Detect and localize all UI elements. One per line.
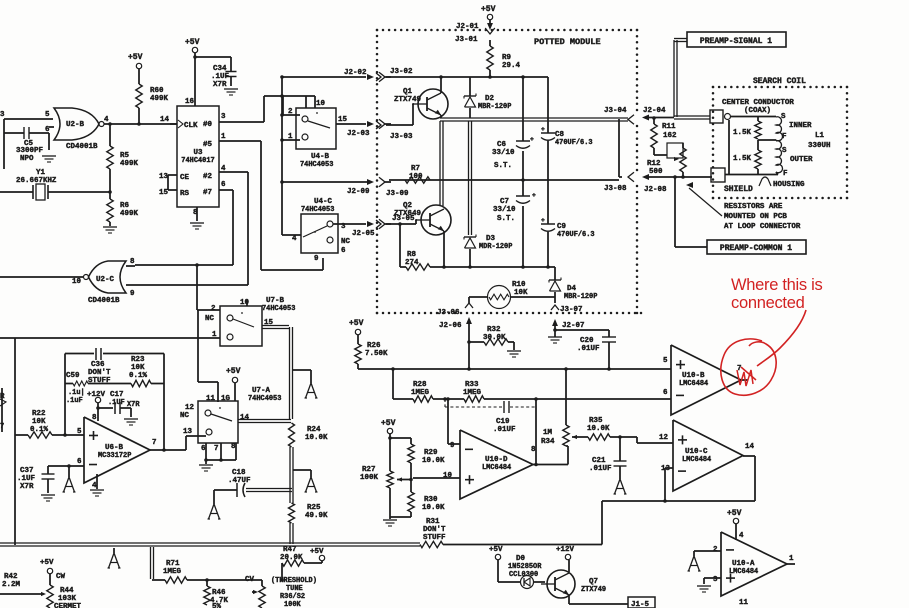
svg-text:6: 6 bbox=[341, 247, 346, 255]
svg-text:R12: R12 bbox=[647, 160, 661, 168]
svg-text:14: 14 bbox=[240, 414, 249, 422]
svg-text:C19: C19 bbox=[496, 418, 510, 426]
svg-text:100K: 100K bbox=[360, 474, 378, 482]
wire R31 to U10-C loop bbox=[443, 544, 602, 546]
wire U10-D pin 9 bbox=[447, 399, 449, 444]
svg-text:RESISTORS ARE: RESISTORS ARE bbox=[724, 203, 783, 211]
svg-text:J2-05: J2-05 bbox=[352, 230, 375, 238]
resistor 1.5K lower bbox=[757, 140, 759, 150]
connector J3-08 chevron left bbox=[628, 172, 634, 182]
svg-text:.01UF: .01UF bbox=[589, 465, 612, 473]
svg-text:POTTED MODULE: POTTED MODULE bbox=[534, 37, 601, 47]
svg-text:CERMET: CERMET bbox=[54, 603, 81, 608]
inductor L1 330UH inner bbox=[776, 117, 783, 141]
svg-text:2.2M: 2.2M bbox=[2, 581, 20, 589]
svg-text:U7-B: U7-B bbox=[266, 297, 284, 305]
connector J3-03 chevron bbox=[379, 119, 385, 129]
potentiometer R12 500 bbox=[667, 143, 683, 158]
svg-text:J2-02: J2-02 bbox=[344, 69, 367, 77]
wire U10-D output riser bbox=[535, 399, 537, 463]
svg-text:AT LOOP CONNECTOR: AT LOOP CONNECTOR bbox=[724, 223, 801, 231]
wire U6-B output to U7-A pin 13 bbox=[150, 449, 186, 451]
svg-text:33/10: 33/10 bbox=[493, 206, 516, 214]
svg-text:.1uF: .1uF bbox=[66, 397, 83, 405]
svg-text:10: 10 bbox=[316, 100, 325, 108]
wire Q7 emitter to J1-5 bbox=[568, 595, 570, 604]
IC U7-B 74HC4053 bbox=[220, 306, 262, 346]
svg-text:R26: R26 bbox=[367, 342, 381, 350]
svg-text:R28: R28 bbox=[413, 381, 427, 389]
housing symbol bbox=[759, 177, 771, 186]
svg-text:CE: CE bbox=[180, 174, 189, 182]
svg-text:3: 3 bbox=[221, 113, 226, 121]
svg-text:8: 8 bbox=[130, 258, 135, 266]
svg-text:499K: 499K bbox=[150, 95, 168, 103]
svg-text:100: 100 bbox=[409, 173, 423, 181]
svg-text:D4: D4 bbox=[567, 285, 576, 293]
coax thick wire horizontal bbox=[440, 117, 628, 119]
svg-text:J3-09: J3-09 bbox=[386, 190, 409, 198]
svg-text:2: 2 bbox=[713, 546, 718, 554]
connector J2-05 arrow bbox=[367, 221, 374, 227]
svg-text:+5V: +5V bbox=[226, 367, 241, 376]
svg-text:4: 4 bbox=[739, 532, 744, 540]
svg-text:1M: 1M bbox=[543, 429, 552, 437]
red scratch marks bbox=[737, 370, 753, 386]
svg-text:U2-C: U2-C bbox=[96, 276, 114, 284]
svg-text:OUTER: OUTER bbox=[790, 156, 813, 164]
svg-text:11: 11 bbox=[739, 599, 748, 607]
thick wire C18 to R24 bus bbox=[246, 488, 292, 490]
annotation arrow to pcb resistors bbox=[689, 188, 722, 216]
svg-text:R31: R31 bbox=[426, 518, 440, 526]
svg-text:#5: #5 bbox=[203, 141, 212, 149]
coil mid rail bbox=[758, 139, 776, 141]
svg-text:U3: U3 bbox=[194, 149, 203, 157]
svg-text:+5V: +5V bbox=[381, 419, 396, 428]
resistor R9 29.4 bbox=[487, 46, 493, 70]
wire U2-C output pin 10 bbox=[0, 276, 84, 278]
svg-text:1MEG: 1MEG bbox=[463, 389, 481, 397]
wire from U7-B pin2 riser down to U7-A pin 11 bbox=[197, 310, 199, 382]
wire U2-B output pin 4 to U3 CLK bbox=[104, 123, 177, 125]
svg-text:10.0K: 10.0K bbox=[422, 457, 445, 465]
connector J2-06 arrow up bbox=[466, 317, 472, 324]
resistor R60 499K bbox=[136, 84, 142, 108]
svg-text:5: 5 bbox=[45, 111, 50, 119]
svg-text:C34: C34 bbox=[213, 65, 227, 73]
search coil dotted box bbox=[712, 86, 715, 89]
svg-text:2: 2 bbox=[288, 108, 293, 116]
connector J3-02 chevron bbox=[379, 72, 385, 82]
svg-text:.1UF: .1UF bbox=[17, 475, 35, 483]
svg-text:R22: R22 bbox=[32, 410, 46, 418]
wire R33 to U10-B pin 6 bbox=[484, 398, 671, 400]
svg-text:10: 10 bbox=[240, 299, 249, 307]
svg-text:10: 10 bbox=[72, 278, 81, 286]
ground under C34 bbox=[224, 88, 238, 90]
svg-text:(THRESHOLD): (THRESHOLD) bbox=[271, 577, 317, 585]
U4-C switch lever bbox=[303, 226, 327, 237]
wire branch to U7-B pin 2 bbox=[196, 265, 198, 310]
coil connector upper bbox=[710, 110, 723, 123]
svg-text:R11: R11 bbox=[662, 123, 676, 131]
svg-text:J2-03: J2-03 bbox=[347, 130, 370, 138]
ground under U10-A pin 3 bbox=[697, 585, 711, 587]
svg-text:R36/S2: R36/S2 bbox=[280, 593, 305, 601]
wire U3 #0 to U4-B pin 10/pin 2 bbox=[263, 96, 265, 122]
svg-text:MOUNTED ON PCB: MOUNTED ON PCB bbox=[724, 213, 787, 221]
svg-text:S.T.: S.T. bbox=[494, 162, 512, 170]
wire long horizontal to U7-B pin 1 bbox=[0, 337, 220, 339]
svg-text:J3-04: J3-04 bbox=[604, 107, 627, 115]
box J1-5 bbox=[628, 597, 655, 608]
analog common arrow A mid bbox=[306, 383, 312, 398]
capacitor C17 .1UF X7R bbox=[98, 407, 113, 409]
svg-text:X7R: X7R bbox=[127, 401, 140, 409]
svg-text:R46: R46 bbox=[212, 589, 226, 597]
resistor R29 10.0K bbox=[408, 444, 414, 463]
analog common arrow on bus bbox=[113, 548, 115, 553]
svg-text:CV: CV bbox=[245, 576, 254, 584]
NOR gate U2-C CD4001B mirrored bbox=[89, 261, 127, 293]
svg-text:NC: NC bbox=[341, 238, 350, 246]
svg-text:1MEG: 1MEG bbox=[163, 568, 181, 576]
svg-text:74HC4053: 74HC4053 bbox=[262, 305, 295, 313]
svg-text:6: 6 bbox=[45, 126, 50, 134]
svg-text:STUFF: STUFF bbox=[423, 534, 446, 542]
svg-text:U2-B: U2-B bbox=[66, 121, 84, 129]
svg-text:+: + bbox=[532, 192, 536, 199]
svg-text:12: 12 bbox=[185, 404, 194, 412]
svg-text:HOUSING: HOUSING bbox=[773, 181, 805, 189]
svg-text:0.1%: 0.1% bbox=[129, 372, 147, 380]
analog common arrow A lower bbox=[306, 477, 312, 492]
svg-text:J2-01: J2-01 bbox=[456, 23, 479, 31]
svg-text:R5: R5 bbox=[120, 152, 129, 160]
svg-text:1: 1 bbox=[288, 133, 293, 141]
diode D0 1N5285OR CCL0300 bbox=[498, 581, 520, 583]
svg-text:F: F bbox=[782, 133, 787, 141]
U4-C pin 3 contact bbox=[327, 221, 333, 227]
diode D4 MBR-120P bbox=[554, 267, 556, 280]
svg-text:D3: D3 bbox=[486, 235, 495, 243]
coil connector lower bbox=[711, 168, 725, 182]
thick bottom bus bbox=[0, 542, 420, 544]
svg-text:R9: R9 bbox=[502, 54, 511, 62]
svg-text:.1UF: .1UF bbox=[108, 399, 125, 407]
svg-text:1G: 1G bbox=[221, 395, 230, 403]
analog common arrow near U6-B bbox=[68, 466, 70, 477]
wire input node 3 to U2-B pin 5 bbox=[4, 118, 53, 120]
capacitor C5 bbox=[4, 132, 24, 134]
capacitor C34 .1UF X7R bbox=[226, 71, 237, 73]
svg-text:C36: C36 bbox=[91, 361, 105, 369]
wire U3 #2 to U2-C pin 9 bbox=[247, 172, 249, 285]
svg-text:#2: #2 bbox=[203, 173, 212, 181]
thick wire U7-B pin15 to U7-A pin14 bbox=[262, 325, 289, 327]
op-amp U10-B LMC6484 bbox=[671, 345, 741, 415]
U3 pin 14 CLK bbox=[170, 123, 177, 125]
wire +5V branch to C34 bbox=[195, 56, 231, 58]
svg-text:TUNE: TUNE bbox=[286, 585, 303, 593]
red scribble circle bbox=[721, 339, 776, 395]
svg-text:.01UF: .01UF bbox=[577, 345, 600, 353]
connector J3-06 chevron up bbox=[465, 303, 473, 308]
svg-text:#0: #0 bbox=[203, 121, 212, 129]
wire branch to analog common arrow bbox=[292, 369, 311, 371]
svg-text:1: 1 bbox=[212, 331, 217, 339]
svg-text:R33: R33 bbox=[465, 381, 479, 389]
capacitor C6 33/10 bbox=[522, 77, 524, 141]
thick wire R24 to R25 bbox=[289, 447, 291, 503]
NOR gate U2-B CD4001B bbox=[54, 108, 99, 140]
wire bottom rail of module bbox=[430, 266, 555, 268]
svg-text:5: 5 bbox=[663, 357, 668, 365]
connector J2-04 arrow left bbox=[642, 115, 649, 121]
svg-text:R7: R7 bbox=[411, 165, 420, 173]
resistor R32 30.0K bbox=[469, 341, 484, 343]
connector J2-02 arrow bbox=[367, 74, 374, 80]
transistor Q1 ZTX749 bbox=[418, 89, 448, 119]
wire J3-08 inside link bbox=[618, 119, 620, 177]
svg-text:J2-07: J2-07 bbox=[562, 322, 584, 330]
wire U10-A pin 2 bbox=[694, 550, 721, 552]
svg-text:15: 15 bbox=[159, 189, 168, 197]
svg-text:74HC4053: 74HC4053 bbox=[300, 161, 333, 169]
svg-text:11: 11 bbox=[206, 395, 215, 403]
wire J2-02 vertical riser bbox=[281, 78, 283, 140]
svg-text:ZTX749: ZTX749 bbox=[581, 586, 606, 594]
svg-text:1: 1 bbox=[221, 133, 226, 141]
wire branch to analog common lower bbox=[293, 469, 311, 471]
svg-text:74HC4053: 74HC4053 bbox=[248, 395, 281, 403]
svg-text:3: 3 bbox=[0, 111, 5, 119]
wire to U10-C pin 12 bbox=[618, 435, 622, 439]
svg-text:14: 14 bbox=[160, 116, 169, 124]
svg-text:29.4: 29.4 bbox=[502, 62, 520, 70]
ground under C37 bbox=[41, 494, 55, 496]
op-amp U10-D LMC6484 bbox=[460, 430, 533, 499]
wire Q1 base from J3-03 bbox=[376, 121, 381, 129]
svg-text:R27: R27 bbox=[362, 466, 375, 474]
svg-text:R44: R44 bbox=[60, 587, 74, 595]
wire U4-B pin 15 to J2-03 bbox=[336, 123, 366, 125]
svg-text:R60: R60 bbox=[150, 87, 164, 95]
svg-text:J2-04: J2-04 bbox=[643, 107, 666, 115]
ground under C5 bbox=[42, 155, 56, 157]
svg-text:(COAX): (COAX) bbox=[744, 107, 771, 115]
svg-text:C9: C9 bbox=[557, 223, 566, 231]
svg-text:1MEG: 1MEG bbox=[411, 389, 429, 397]
svg-text:5%: 5% bbox=[212, 603, 221, 608]
svg-text:+5V: +5V bbox=[349, 319, 364, 328]
svg-text:CLK: CLK bbox=[184, 122, 198, 130]
svg-text:C7: C7 bbox=[500, 198, 509, 206]
svg-text:13: 13 bbox=[183, 428, 192, 436]
wire U10-D output bbox=[533, 464, 568, 466]
resistor R5 499K bbox=[109, 124, 111, 146]
svg-text:D0: D0 bbox=[516, 555, 525, 563]
op-amp U10-A LMC6484 bbox=[721, 532, 787, 596]
svg-text:10.0K: 10.0K bbox=[305, 434, 328, 442]
svg-text:6: 6 bbox=[663, 389, 668, 397]
svg-text:J3-02: J3-02 bbox=[390, 68, 413, 76]
svg-text:ZTX749: ZTX749 bbox=[394, 96, 421, 104]
svg-text:C59: C59 bbox=[66, 372, 80, 380]
ground under R27 R30 bbox=[389, 517, 391, 519]
svg-text:Q7: Q7 bbox=[589, 578, 598, 586]
wire loop to bottom run bbox=[601, 501, 603, 545]
svg-text:49.9K: 49.9K bbox=[305, 512, 328, 520]
svg-text:1N5285OR: 1N5285OR bbox=[508, 563, 542, 571]
svg-text:470UF/6.3: 470UF/6.3 bbox=[555, 139, 593, 147]
diode D3 MDR-120P bbox=[464, 236, 476, 238]
capacitor C21 .01UF bbox=[619, 437, 621, 461]
resistor R25 49.9K bbox=[289, 503, 295, 523]
wire to preamp-common bbox=[674, 177, 676, 247]
connector J2-01 arrow down bbox=[487, 23, 493, 30]
svg-text:CW: CW bbox=[56, 573, 65, 581]
wire Q1 collector bbox=[440, 77, 442, 93]
connector J3-07 chevron up bbox=[551, 305, 559, 310]
svg-text:L1: L1 bbox=[815, 132, 824, 140]
wire Q2 base from J3-05 bbox=[376, 220, 381, 228]
svg-text:4: 4 bbox=[104, 116, 109, 124]
svg-text:+5V: +5V bbox=[40, 559, 54, 567]
svg-text:7: 7 bbox=[214, 445, 219, 453]
svg-text:LMC6484: LMC6484 bbox=[482, 464, 511, 472]
svg-text:D2: D2 bbox=[485, 95, 494, 103]
U7-A pin 13 contact bbox=[206, 429, 212, 435]
wire Q7 collector bbox=[568, 560, 570, 572]
svg-text:R6: R6 bbox=[120, 202, 129, 210]
svg-text:MC33172P: MC33172P bbox=[98, 452, 131, 460]
svg-text:.1UF: .1UF bbox=[211, 73, 229, 81]
svg-text:RS: RS bbox=[180, 190, 189, 198]
ground under R32 bbox=[507, 350, 521, 352]
svg-text:7: 7 bbox=[0, 423, 4, 431]
svg-text:J2-06: J2-06 bbox=[439, 322, 462, 330]
wire Q1 emitter to coax bbox=[440, 115, 442, 118]
resistor R35 10.0K bbox=[577, 436, 588, 438]
box PREAMP-COMMON 1 bbox=[707, 240, 806, 254]
coax thick vertical to Q2 bbox=[439, 121, 441, 206]
wire Q2 emitter bbox=[443, 231, 445, 267]
resistor 1.5K upper bbox=[757, 117, 759, 122]
svg-text:Where this is: Where this is bbox=[731, 276, 823, 294]
svg-text:+: + bbox=[541, 126, 545, 133]
red pointer curve bbox=[757, 310, 806, 366]
svg-text:NPO: NPO bbox=[20, 155, 34, 163]
connector J3-05 chevron bbox=[379, 219, 385, 229]
svg-text:C6: C6 bbox=[497, 141, 506, 149]
wire U10-C output loop bbox=[743, 455, 755, 457]
coil top rail bbox=[731, 116, 776, 118]
svg-text:SEARCH COIL: SEARCH COIL bbox=[753, 77, 806, 86]
svg-text:U7-A: U7-A bbox=[252, 387, 270, 395]
resistor R26 7.50K bbox=[355, 344, 361, 364]
svg-text:+5V: +5V bbox=[128, 53, 143, 62]
svg-text:10K: 10K bbox=[131, 364, 145, 372]
wire top rail J3-02 bbox=[376, 73, 381, 81]
wire Q2 base down to R8 bbox=[399, 224, 401, 267]
svg-text:12: 12 bbox=[659, 434, 668, 442]
wire J2-09 line bbox=[282, 181, 366, 183]
svg-text:R30: R30 bbox=[424, 496, 438, 504]
svg-text:DON'T: DON'T bbox=[88, 369, 111, 377]
svg-text:C17: C17 bbox=[110, 391, 123, 399]
svg-text:14: 14 bbox=[745, 443, 754, 451]
thick bus drop to R71 bbox=[150, 547, 152, 579]
resistor R7 100 bbox=[405, 177, 430, 183]
svg-text:.01UF: .01UF bbox=[493, 426, 516, 434]
svg-text:U4-B: U4-B bbox=[311, 153, 329, 161]
svg-text:+5V: +5V bbox=[489, 546, 503, 554]
svg-text:+5V: +5V bbox=[185, 38, 200, 47]
wire riser to R28 bbox=[392, 369, 394, 399]
wire to C20 bbox=[555, 329, 609, 331]
IC U4-B 74HC4053 switch bbox=[296, 108, 336, 149]
resistor R33 1MEG bbox=[464, 396, 484, 402]
svg-text:Y1: Y1 bbox=[36, 169, 45, 177]
svg-text:R42: R42 bbox=[4, 573, 18, 581]
svg-text:R10: R10 bbox=[512, 281, 526, 289]
ground under U7-A bbox=[205, 460, 207, 464]
power +5V at R47 bbox=[304, 562, 322, 564]
wire U10-A pin 1 stub bbox=[787, 563, 795, 565]
resistor R46 4.7K bbox=[206, 580, 208, 586]
potentiometer R36 threshold bbox=[259, 586, 265, 608]
connector J2-03 arrow bbox=[367, 121, 374, 127]
potentiometer R34 1M bbox=[565, 369, 567, 425]
svg-text:+12V: +12V bbox=[556, 546, 574, 554]
svg-text:MBR-120P: MBR-120P bbox=[564, 293, 597, 301]
svg-text:R25: R25 bbox=[307, 504, 321, 512]
svg-text:499K: 499K bbox=[120, 210, 138, 218]
svg-text:274: 274 bbox=[405, 259, 419, 267]
wire main line to U10-B pin 5 bbox=[358, 368, 671, 370]
capacitor C7 33/10 bbox=[516, 195, 530, 197]
svg-text:+: + bbox=[530, 136, 534, 143]
connector J3-04 chevron bbox=[628, 115, 634, 125]
svg-text:2: 2 bbox=[211, 305, 216, 313]
connector J2-08 arrow left bbox=[642, 174, 649, 180]
wire R7 J3-09 line bbox=[389, 179, 619, 181]
transistor Q7 ZTX749 bbox=[547, 570, 575, 598]
svg-text:6: 6 bbox=[221, 181, 226, 189]
svg-text:C8: C8 bbox=[555, 131, 564, 139]
svg-text:9: 9 bbox=[130, 290, 135, 298]
svg-text:MBR-120P: MBR-120P bbox=[478, 103, 511, 111]
wire CE-RS tie bbox=[167, 175, 169, 190]
capacitor C36 DON'T STUFF bbox=[95, 348, 97, 360]
svg-text:U4-C: U4-C bbox=[314, 198, 332, 206]
ground under C17 bbox=[124, 418, 138, 420]
resistor R30 10.0K bbox=[409, 478, 413, 482]
wire U10-B output stub bbox=[741, 379, 748, 381]
svg-text:J1-5: J1-5 bbox=[631, 601, 649, 608]
svg-text:20.0K: 20.0K bbox=[280, 554, 303, 562]
svg-text:+5V: +5V bbox=[310, 548, 324, 556]
svg-text:15: 15 bbox=[338, 116, 347, 124]
connector J3-09 chevron bbox=[379, 177, 385, 187]
svg-text:C20: C20 bbox=[580, 337, 594, 345]
U4-B switch lever bbox=[308, 121, 330, 128]
feedback box around C36 R23 bbox=[65, 353, 94, 355]
svg-text:R29: R29 bbox=[424, 449, 438, 457]
svg-text:74HC4017: 74HC4017 bbox=[181, 157, 214, 165]
